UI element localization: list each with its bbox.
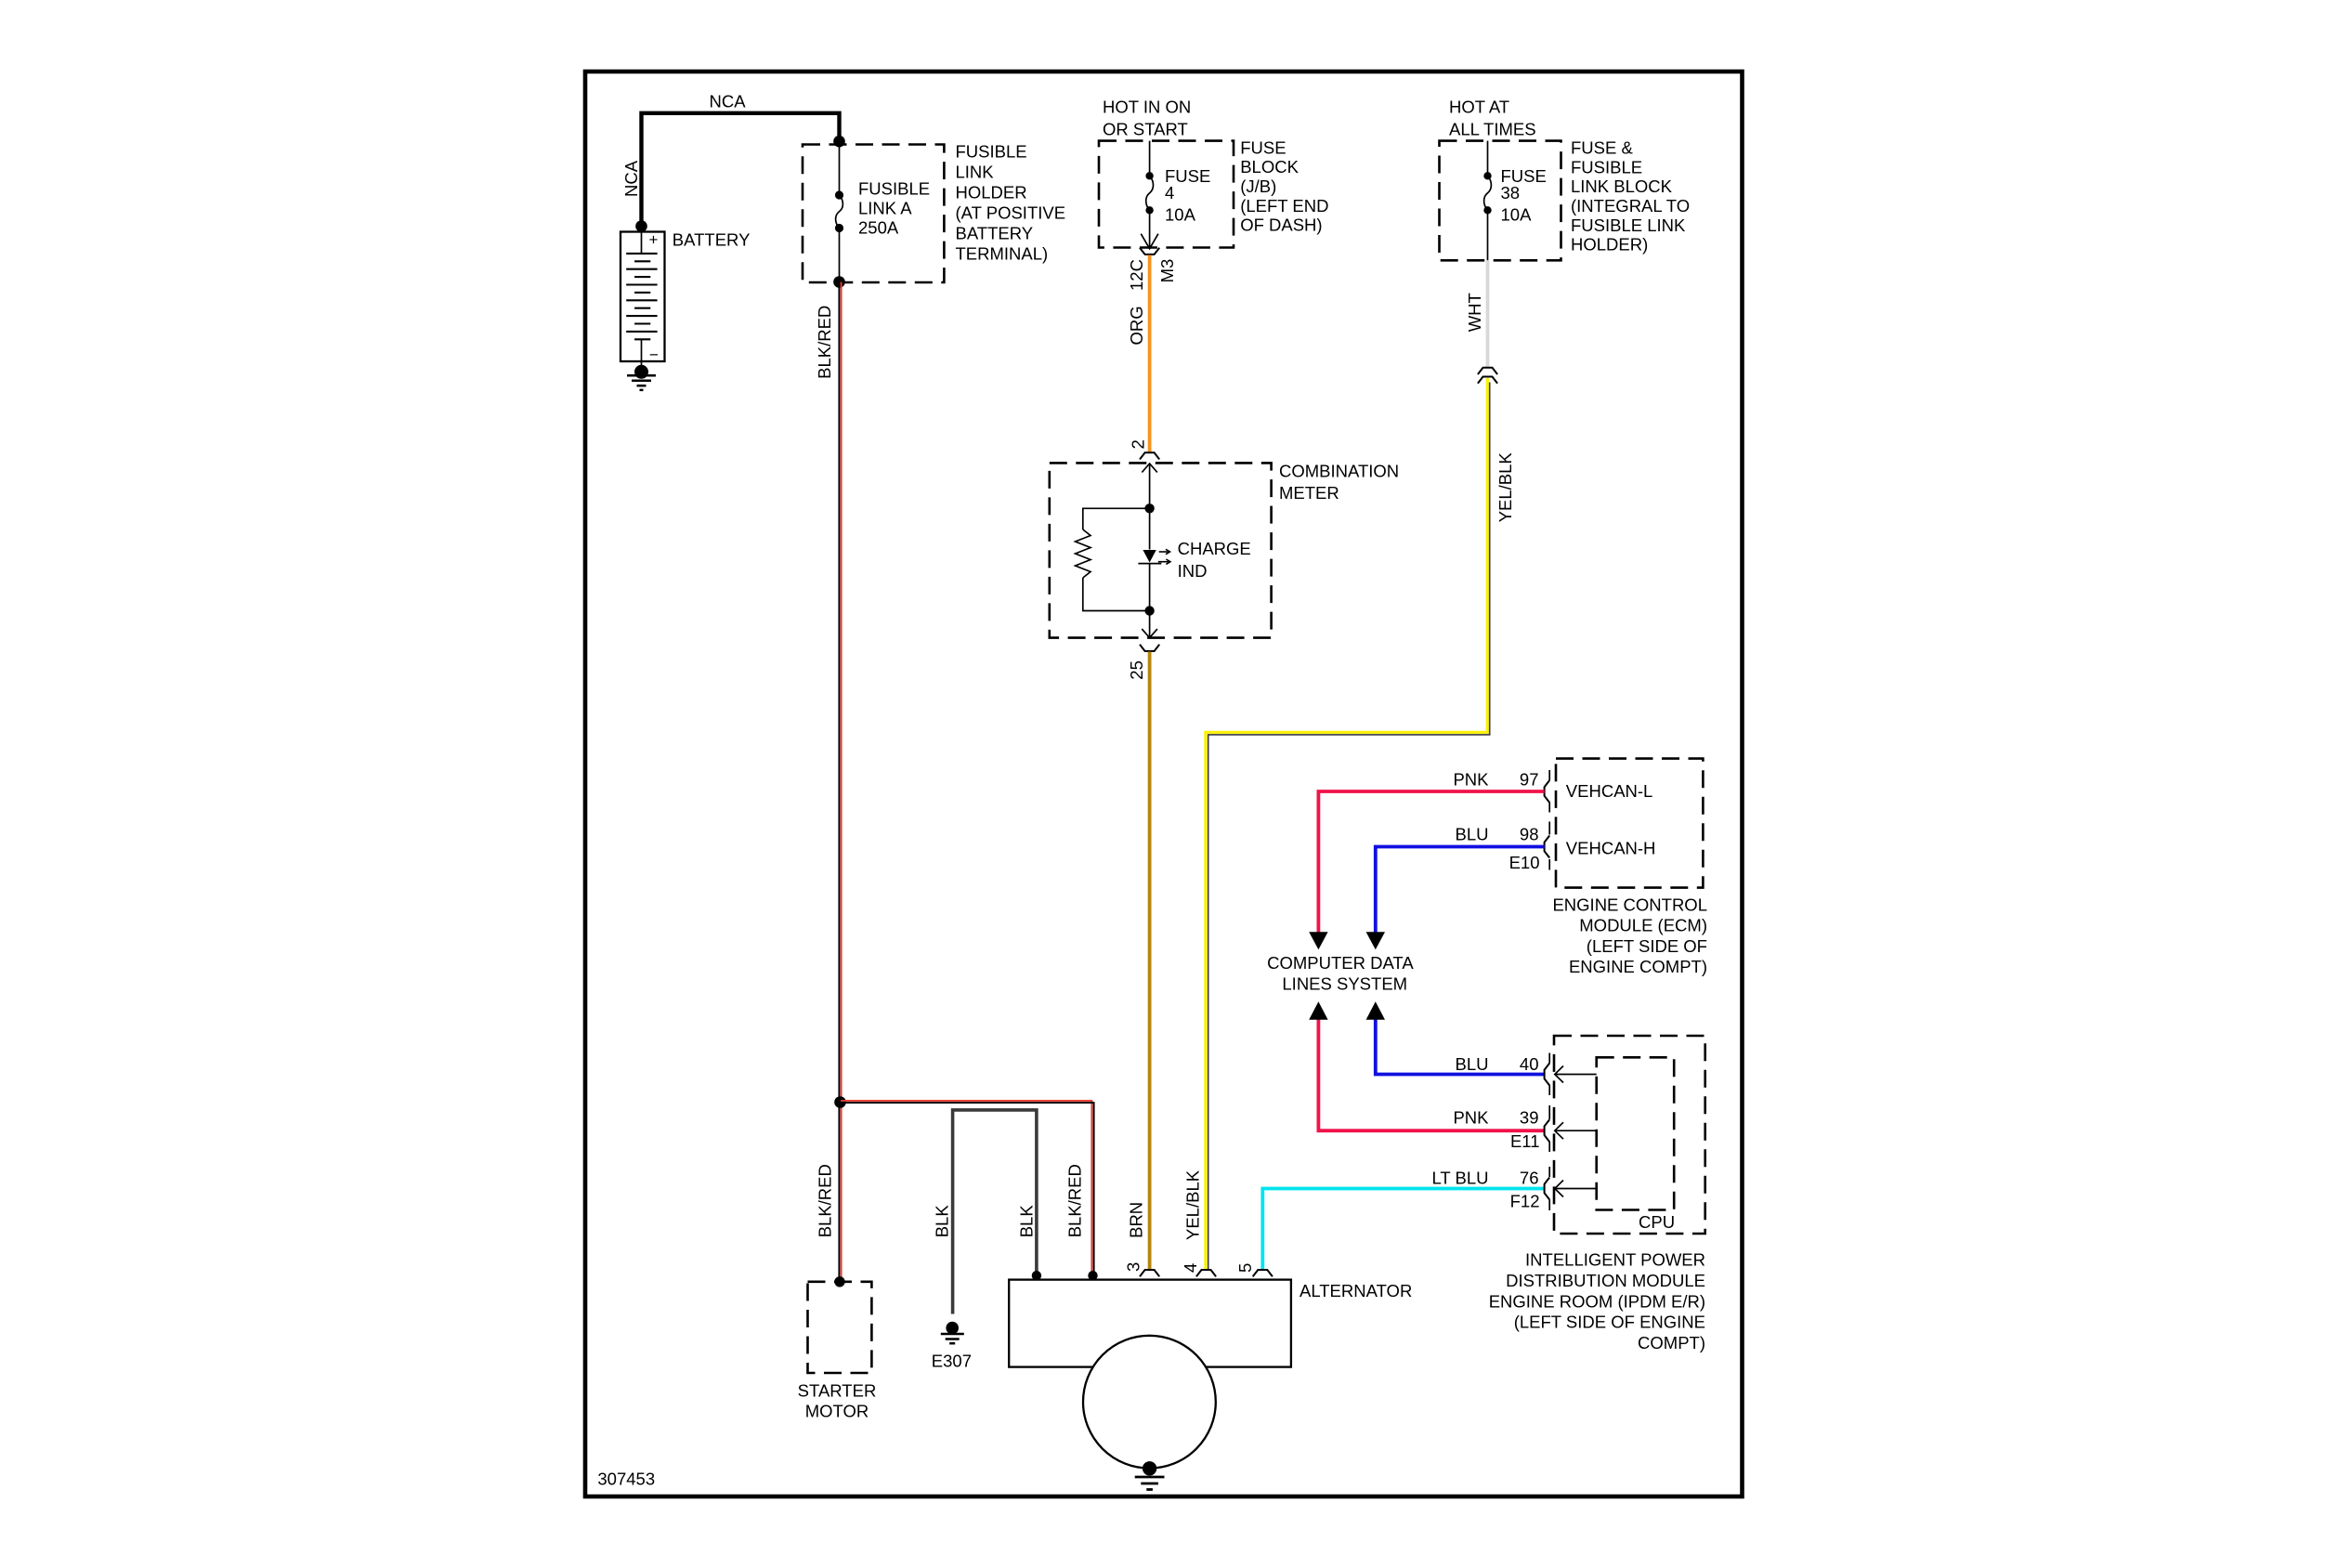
svg-text:39: 39 [1520, 1107, 1539, 1127]
starter motor box [808, 1282, 872, 1373]
fusible link holder box [803, 145, 944, 283]
svg-text:FUSE: FUSE [1240, 137, 1286, 157]
wire LT BLU pin76 [1262, 1189, 1544, 1271]
svg-text:VEHCAN-L: VEHCAN-L [1566, 781, 1653, 801]
battery [620, 232, 665, 362]
connector E10 pin 98 [1545, 836, 1550, 858]
svg-text:5: 5 [1235, 1263, 1255, 1273]
svg-text:COMPUTER DATA: COMPUTER DATA [1267, 953, 1414, 973]
svg-text:LINES SYSTEM: LINES SYSTEM [1282, 974, 1407, 994]
svg-text:HOLDER): HOLDER) [1571, 235, 1648, 255]
wire PNK pin97 [1318, 791, 1544, 933]
svg-text:ORG: ORG [1127, 306, 1146, 345]
svg-text:YEL/BLK: YEL/BLK [1495, 452, 1515, 523]
ground battery [634, 365, 648, 379]
svg-text:INTELLIGENT POWER: INTELLIGENT POWER [1525, 1250, 1705, 1270]
svg-text:LINK A: LINK A [858, 199, 912, 218]
fuse & fusible link block box [1440, 141, 1561, 261]
connector E11 pin 40 [1545, 1064, 1550, 1086]
node alternator BLK terminal [1032, 1271, 1041, 1280]
inline connector [1478, 368, 1497, 374]
svg-text:10A: 10A [1165, 204, 1196, 224]
svg-text:LINK BLOCK: LINK BLOCK [1571, 176, 1673, 196]
svg-text:(J/B): (J/B) [1240, 176, 1276, 196]
node fusible link holder bottom [833, 276, 845, 288]
node battery positive [635, 220, 647, 232]
svg-text:BLK/RED: BLK/RED [1064, 1164, 1084, 1237]
svg-text:BLK: BLK [932, 1205, 951, 1238]
svg-text:LT BLU: LT BLU [1431, 1169, 1488, 1188]
svg-text:BLK/RED: BLK/RED [816, 1164, 835, 1237]
svg-text:(AT POSITIVE: (AT POSITIVE [956, 203, 1066, 222]
svg-text:YEL/BLK: YEL/BLK [1182, 1169, 1202, 1240]
svg-text:WHT: WHT [1465, 293, 1484, 332]
CPU box [1597, 1057, 1675, 1209]
svg-text:4: 4 [1165, 183, 1174, 203]
svg-text:COMBINATION: COMBINATION [1279, 462, 1399, 481]
alternator box [1009, 1280, 1291, 1367]
svg-text:FUSIBLE: FUSIBLE [858, 179, 930, 199]
svg-text:(INTEGRAL TO: (INTEGRAL TO [1571, 196, 1690, 216]
svg-text:BATTERY: BATTERY [956, 224, 1034, 243]
connector pin 4 [1196, 1270, 1216, 1276]
svg-text:BRN: BRN [1127, 1202, 1146, 1238]
svg-text:BATTERY: BATTERY [673, 230, 751, 250]
svg-text:HOT IN ON: HOT IN ON [1103, 98, 1191, 117]
border frame [585, 72, 1743, 1496]
svg-text:VEHCAN-H: VEHCAN-H [1566, 839, 1656, 858]
svg-text:BLK: BLK [1017, 1205, 1037, 1238]
svg-text:4: 4 [1181, 1263, 1200, 1273]
svg-text:ENGINE COMPT): ENGINE COMPT) [1569, 957, 1707, 976]
svg-text:38: 38 [1501, 183, 1521, 203]
svg-text:E307: E307 [932, 1352, 972, 1371]
connector pin 25 [1140, 645, 1159, 651]
wire YEL/BLK fuse38 to alternator pin4 [1206, 378, 1487, 1270]
wire BLK/RED battery feed [838, 282, 840, 1282]
svg-text:BLU: BLU [1456, 825, 1489, 844]
svg-text:FUSIBLE: FUSIBLE [1571, 157, 1642, 176]
meter entry arrow [1149, 464, 1151, 508]
node alternator BLK/RED terminal [1088, 1271, 1097, 1280]
node NCA / fusible link top [833, 136, 845, 148]
IPDM E/R box [1554, 1036, 1705, 1234]
connector M3 12C [1140, 248, 1159, 255]
svg-text:97: 97 [1520, 770, 1539, 790]
svg-text:PNK: PNK [1453, 1107, 1489, 1127]
wire BLU pin40 [1376, 1020, 1545, 1075]
svg-text:STARTER: STARTER [798, 1380, 877, 1400]
svg-text:(LEFT END: (LEFT END [1240, 196, 1328, 216]
svg-text:LINK: LINK [956, 162, 995, 181]
wire WHT [1486, 260, 1490, 368]
wire ORG fuse4 to combination meter [1148, 255, 1152, 453]
svg-text:ENGINE CONTROL: ENGINE CONTROL [1552, 895, 1707, 915]
svg-text:FUSE &: FUSE & [1571, 137, 1633, 157]
svg-text:COMPT): COMPT) [1638, 1333, 1705, 1352]
connector F12 pin 76 [1545, 1178, 1550, 1200]
svg-text:12C: 12C [1127, 259, 1146, 291]
svg-text:25: 25 [1127, 660, 1146, 680]
wire BLK alternator to E307 [953, 1110, 1037, 1314]
svg-text:−: − [649, 346, 659, 364]
svg-text:NCA: NCA [621, 160, 641, 197]
svg-text:M3: M3 [1157, 259, 1177, 283]
resistor [1083, 508, 1150, 529]
svg-text:F12: F12 [1510, 1192, 1540, 1211]
svg-text:E10: E10 [1509, 853, 1540, 872]
svg-text:307453: 307453 [597, 1470, 655, 1489]
ground alternator [1143, 1461, 1156, 1475]
connector pin 3 [1140, 1270, 1159, 1276]
meter exit arrow [1149, 611, 1151, 638]
wire BLK/RED branch to alternator [841, 1101, 1091, 1275]
svg-text:IND: IND [1178, 561, 1208, 581]
svg-text:FUSIBLE LINK: FUSIBLE LINK [1571, 216, 1686, 235]
svg-text:CHARGE: CHARGE [1178, 539, 1251, 558]
svg-text:TERMINAL): TERMINAL) [956, 244, 1049, 264]
wire PNK pin39 [1318, 1020, 1544, 1131]
svg-text:MOTOR: MOTOR [805, 1402, 869, 1421]
wire BRN meter to alternator pin3 [1148, 652, 1152, 1271]
svg-text:40: 40 [1520, 1054, 1539, 1074]
wire BLU pin98 [1376, 847, 1545, 933]
ECM box [1556, 759, 1703, 888]
svg-text:PNK: PNK [1453, 770, 1489, 790]
svg-text:BLOCK: BLOCK [1240, 157, 1299, 176]
svg-text:3: 3 [1124, 1262, 1143, 1272]
svg-text:E11: E11 [1510, 1131, 1540, 1151]
svg-text:+: + [649, 231, 659, 249]
svg-text:2: 2 [1129, 439, 1148, 449]
svg-text:OR START: OR START [1103, 119, 1188, 138]
fuse 4 10A [1149, 141, 1151, 176]
svg-text:98: 98 [1520, 825, 1539, 844]
svg-text:BLK/RED: BLK/RED [815, 306, 834, 379]
svg-text:HOLDER: HOLDER [956, 182, 1027, 202]
wire NCA battery to fusible link holder [642, 113, 840, 227]
ground E307 [946, 1322, 959, 1335]
fusible link A [839, 141, 841, 195]
svg-text:DISTRIBUTION MODULE: DISTRIBUTION MODULE [1506, 1271, 1705, 1290]
connector pin 2 [1140, 452, 1159, 459]
connector E10 pin 97 [1545, 780, 1550, 803]
svg-text:MODULE (ECM): MODULE (ECM) [1579, 916, 1707, 935]
connector E11 pin 39 [1545, 1119, 1550, 1142]
svg-text:ENGINE ROOM (IPDM E/R): ENGINE ROOM (IPDM E/R) [1489, 1291, 1705, 1311]
svg-text:76: 76 [1520, 1169, 1539, 1188]
svg-text:NCA: NCA [709, 92, 746, 111]
svg-text:HOT AT: HOT AT [1449, 98, 1509, 117]
node BLK/RED junction [834, 1096, 846, 1108]
svg-text:(LEFT SIDE OF: (LEFT SIDE OF [1587, 936, 1707, 956]
fuse block J/B box [1099, 141, 1234, 248]
svg-text:CPU: CPU [1639, 1212, 1675, 1232]
svg-text:BLU: BLU [1456, 1054, 1489, 1074]
svg-text:(LEFT SIDE OF ENGINE: (LEFT SIDE OF ENGINE [1514, 1313, 1705, 1332]
svg-text:METER: METER [1279, 483, 1339, 503]
alternator rotor circle [1083, 1336, 1216, 1469]
svg-text:10A: 10A [1501, 204, 1533, 224]
node starter motor terminal [834, 1276, 844, 1287]
combination meter box [1050, 463, 1272, 637]
svg-text:250A: 250A [858, 218, 899, 238]
charge indicator LED [1149, 508, 1151, 549]
svg-text:ALL TIMES: ALL TIMES [1449, 119, 1536, 138]
svg-text:FUSIBLE: FUSIBLE [956, 141, 1027, 161]
svg-text:OF DASH): OF DASH) [1240, 216, 1322, 235]
fuse 38 10A [1487, 141, 1489, 176]
connector pin 5 [1253, 1270, 1273, 1276]
svg-text:ALTERNATOR: ALTERNATOR [1300, 1281, 1412, 1300]
